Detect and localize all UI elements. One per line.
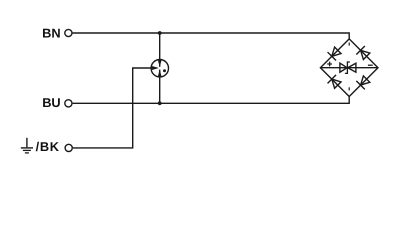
- svg-text:BN: BN: [42, 26, 60, 41]
- svg-text:BU: BU: [42, 95, 60, 110]
- svg-text:/BK: /BK: [36, 139, 60, 154]
